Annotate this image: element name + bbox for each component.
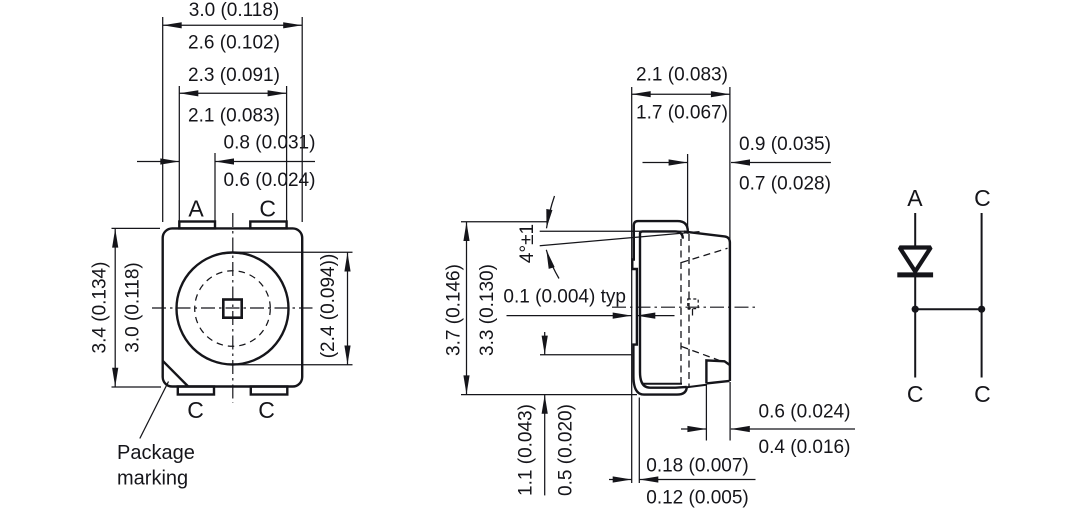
svg-text:A: A xyxy=(907,185,923,211)
diode D1 cathode bar xyxy=(897,272,933,277)
svg-text:0.5 (0.020): 0.5 (0.020) xyxy=(555,404,576,496)
body bottom edge behind lead xyxy=(642,383,682,385)
extension lines top view xyxy=(162,17,164,222)
svg-text:0.6 (0.024): 0.6 (0.024) xyxy=(224,170,316,191)
junction node right xyxy=(978,306,985,313)
svg-text:0.4 (0.016): 0.4 (0.016) xyxy=(759,437,851,458)
pin C tab bottom-right xyxy=(251,387,287,395)
connecting wire xyxy=(915,308,981,310)
svg-text:1.7 (0.067): 1.7 (0.067) xyxy=(636,103,728,124)
body top sloped edge xyxy=(684,232,730,381)
chip tick xyxy=(692,309,694,316)
dimension 3.0/2.6 width xyxy=(163,24,303,26)
lead outer outline xyxy=(632,221,688,395)
dimension 0.1 typ xyxy=(507,315,632,317)
pin C tab top-right xyxy=(250,222,286,229)
svg-text:0.12 (0.005): 0.12 (0.005) xyxy=(646,488,748,509)
body bottom front edge xyxy=(687,385,707,388)
svg-text:C: C xyxy=(187,397,204,423)
hidden edge reflector left xyxy=(680,239,682,384)
chip square xyxy=(223,300,241,318)
side extension lines xyxy=(631,87,633,483)
cathode wire right xyxy=(981,213,983,378)
lens circle xyxy=(177,253,289,365)
svg-text:marking: marking xyxy=(117,468,188,490)
svg-text:C: C xyxy=(974,381,991,407)
svg-text:2.1 (0.083): 2.1 (0.083) xyxy=(636,65,728,86)
svg-text:Package: Package xyxy=(117,442,195,464)
svg-text:0.8 (0.031): 0.8 (0.031) xyxy=(224,133,316,154)
svg-text:3.3 (0.130): 3.3 (0.130) xyxy=(477,264,498,356)
svg-text:1.1 (0.043): 1.1 (0.043) xyxy=(516,404,537,496)
pin C tab bottom-left xyxy=(178,387,214,395)
junction node left xyxy=(912,306,919,313)
svg-text:0.7 (0.028): 0.7 (0.028) xyxy=(739,174,831,195)
svg-text:2.3 (0.091): 2.3 (0.091) xyxy=(188,65,280,86)
dimension 3.4/3.0 height xyxy=(112,227,161,229)
side centerline xyxy=(612,306,758,308)
dimension 1.1/0.5 standoff xyxy=(540,354,632,356)
svg-text:4°±1: 4°±1 xyxy=(517,224,538,263)
svg-text:3.0 (0.118): 3.0 (0.118) xyxy=(189,0,279,21)
hidden reflector top diagonal xyxy=(682,248,728,262)
dimension (2.4) lens diameter xyxy=(233,251,353,253)
lead inner outline xyxy=(640,231,687,387)
hidden chip square xyxy=(688,299,698,309)
dimension 0.8/0.6 pin width xyxy=(137,161,179,163)
dimension 0.6/0.4 terminal xyxy=(681,428,706,430)
svg-text:C: C xyxy=(974,185,991,211)
svg-text:0.6 (0.024): 0.6 (0.024) xyxy=(759,402,851,423)
diode D1 triangle xyxy=(900,248,931,272)
hidden edge front face xyxy=(688,234,690,387)
svg-text:2.1 (0.083): 2.1 (0.083) xyxy=(188,106,280,127)
package marking chamfer xyxy=(163,361,189,387)
svg-text:C: C xyxy=(259,195,276,221)
dimension 0.9/0.7 xyxy=(643,162,688,164)
vertical centerline xyxy=(232,213,234,403)
svg-text:2.6 (0.102): 2.6 (0.102) xyxy=(188,33,280,54)
pin A tab top-left xyxy=(179,222,215,229)
svg-text:0.18 (0.007): 0.18 (0.007) xyxy=(646,456,748,477)
svg-text:0.1 (0.004) typ: 0.1 (0.004) typ xyxy=(503,287,626,308)
solder terminal notch bottom-right xyxy=(706,360,729,383)
horizontal centerline xyxy=(152,307,313,309)
dimension 2.3/2.1 pin span xyxy=(179,92,286,94)
angle 4 deg reference lines xyxy=(540,230,684,232)
svg-text:A: A xyxy=(188,195,204,221)
svg-text:(2.4 (0.094)): (2.4 (0.094)) xyxy=(318,254,339,359)
package marking leader xyxy=(140,382,169,439)
svg-text:C: C xyxy=(907,381,924,407)
dimension 2.1/1.7 depth xyxy=(632,93,730,95)
inner dashed circle xyxy=(195,271,271,347)
svg-text:0.9 (0.035): 0.9 (0.035) xyxy=(739,134,831,155)
svg-text:C: C xyxy=(258,397,275,423)
anode wire xyxy=(914,213,916,378)
dimension 0.18/0.12 lead thickness xyxy=(609,479,632,481)
hidden reflector bottom diagonal xyxy=(682,347,720,361)
svg-text:3.7 (0.146): 3.7 (0.146) xyxy=(444,264,465,356)
angle arrows xyxy=(547,196,555,228)
svg-text:3.0 (0.118): 3.0 (0.118) xyxy=(123,262,144,352)
top view body outline xyxy=(163,228,303,386)
svg-text:3.4 (0.134): 3.4 (0.134) xyxy=(90,262,111,354)
dimension 3.7/3.3 height xyxy=(461,221,548,223)
